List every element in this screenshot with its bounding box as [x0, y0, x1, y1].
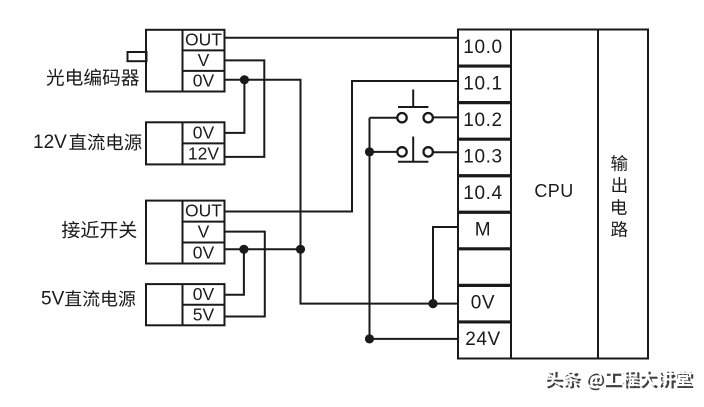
- svg-text:CPU: CPU: [534, 181, 573, 201]
- svg-text:V: V: [198, 50, 210, 70]
- svg-text:M: M: [475, 220, 491, 241]
- svg-text:10.1: 10.1: [463, 73, 502, 94]
- svg-text:10.2: 10.2: [463, 110, 502, 131]
- svg-text:0V: 0V: [193, 284, 215, 304]
- svg-text:0V: 0V: [471, 293, 495, 314]
- svg-text:12V: 12V: [33, 132, 67, 153]
- svg-text:V: V: [198, 222, 210, 242]
- svg-text:12V: 12V: [188, 143, 219, 163]
- svg-text:5V: 5V: [193, 305, 215, 325]
- svg-text:10.0: 10.0: [463, 37, 502, 58]
- svg-text:5V: 5V: [41, 289, 65, 310]
- svg-text:0V: 0V: [193, 122, 215, 142]
- svg-text:OUT: OUT: [185, 201, 222, 221]
- svg-text:0V: 0V: [193, 71, 215, 91]
- svg-text:0V: 0V: [193, 243, 215, 263]
- svg-text:OUT: OUT: [185, 30, 222, 50]
- svg-text:24V: 24V: [465, 329, 501, 350]
- svg-text:10.3: 10.3: [463, 146, 502, 167]
- svg-text:10.4: 10.4: [463, 183, 502, 204]
